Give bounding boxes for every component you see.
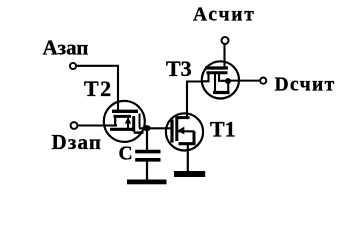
source tap (left): [201, 74, 208, 81]
substrate-source tie bar: [213, 91, 230, 94]
svg-text:Азап: Азап: [43, 36, 89, 60]
channel bar: [175, 117, 178, 141]
source tap (left): [114, 116, 116, 127]
substrate tap: [214, 74, 216, 92]
transistor T1: [166, 113, 203, 150]
wire Dзап terminal to T2 source: [78, 124, 117, 126]
wire capacitor to ground: [146, 162, 148, 180]
drain tap: [219, 74, 228, 81]
substrate-source tie bar: [179, 142, 196, 145]
right tie vertical: [193, 131, 196, 143]
substrate tap with arrow: [127, 118, 129, 129]
wire Азап terminal to T2 gate: [77, 66, 119, 110]
svg-text:Dсчит: Dсчит: [275, 75, 336, 96]
ground (below capacitor): [127, 180, 167, 185]
wire T1 source to ground: [187, 144, 189, 171]
terminal Dзап: [71, 122, 78, 129]
right tie vertical: [132, 116, 135, 132]
ground (below T1): [174, 171, 205, 177]
drain tap (right): [139, 114, 141, 128]
right tie vertical: [227, 84, 229, 93]
terminal Асчит: [222, 37, 229, 44]
wire Асчит terminal to T3 gate: [223, 44, 225, 67]
svg-text:Dзап: Dзап: [52, 130, 103, 154]
node storage junction: [143, 125, 151, 131]
node T3 drain junction: [225, 78, 231, 84]
transistor T3: [201, 61, 239, 98]
gate bar: [112, 110, 138, 113]
channel bar: [207, 71, 228, 74]
terminal Dсчит: [260, 78, 266, 84]
drain tap: [176, 116, 190, 119]
wire storage node: T2 drain to T1 gate: [139, 127, 172, 129]
gate bar: [170, 120, 173, 143]
gate bar: [205, 66, 228, 69]
terminal Азап: [70, 63, 76, 69]
wire storage node down to capacitor: [146, 128, 148, 150]
wire T3 source to T1 drain: [187, 82, 201, 118]
channel bar: [114, 115, 132, 118]
svg-text:Т2: Т2: [84, 76, 113, 101]
wire T3 drain to Dсчит terminal: [228, 80, 260, 82]
transistor T2: [104, 101, 145, 142]
capacitor C: [135, 152, 160, 160]
svg-text:C: C: [119, 143, 133, 164]
svg-text:Т3: Т3: [166, 56, 192, 81]
svg-text:Т1: Т1: [210, 117, 236, 142]
substrate tap with arrow: [178, 130, 195, 132]
substrate-source tie bar: [110, 128, 134, 131]
drain hook: [134, 131, 144, 133]
svg-text:Асчит: Асчит: [193, 4, 256, 25]
